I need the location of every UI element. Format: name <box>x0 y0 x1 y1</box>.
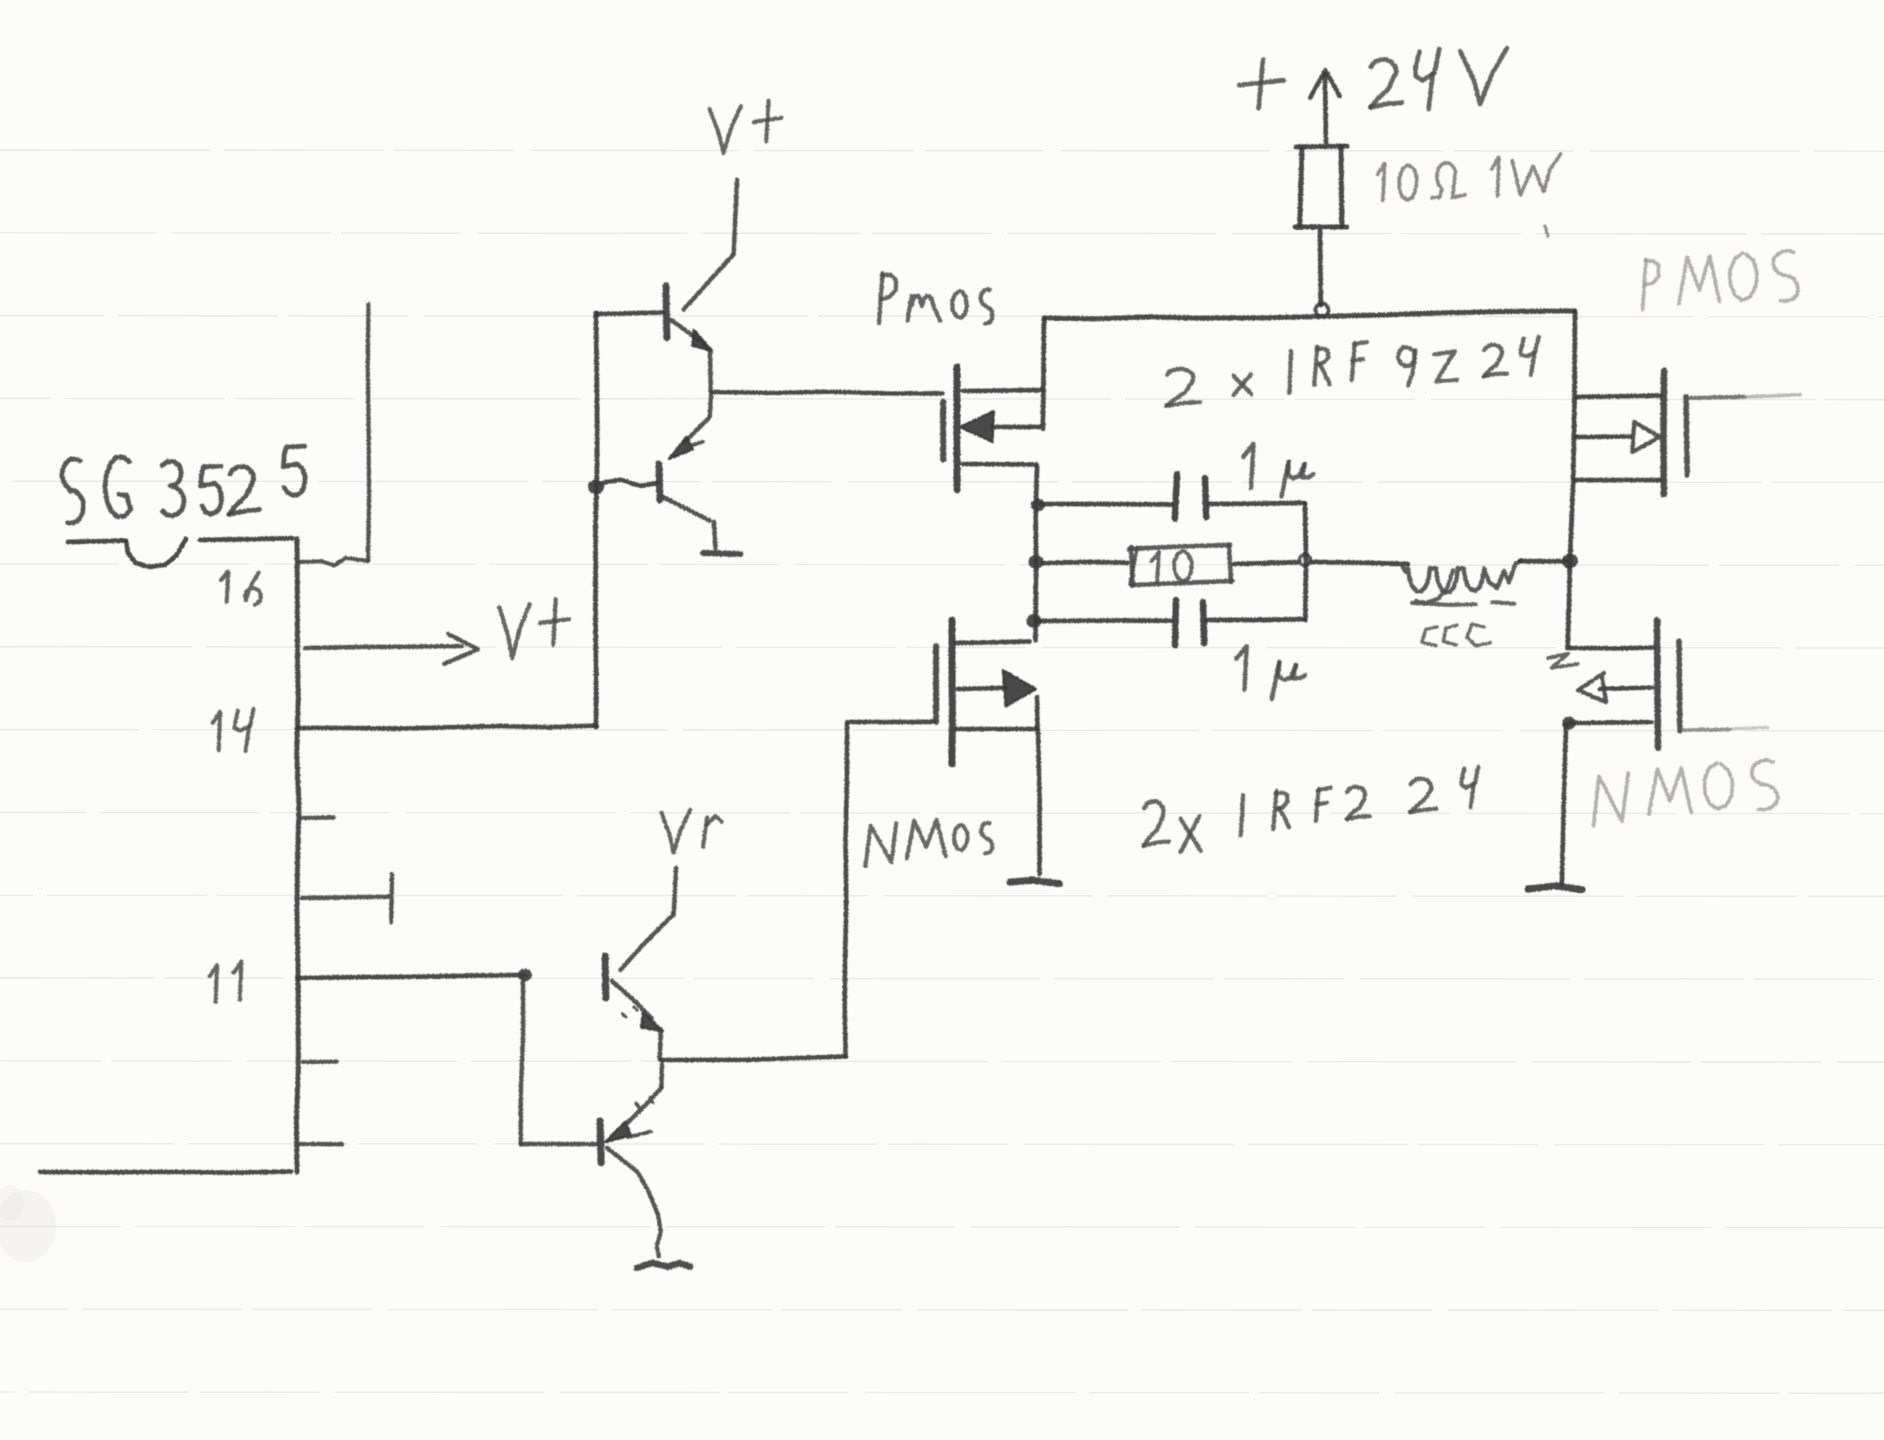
mosfet Q6 gate bar <box>1686 397 1687 475</box>
mosfet Q7 drain wire <box>956 641 1030 643</box>
transistor Q1 base bar <box>663 286 671 338</box>
Q5 body arrowhead <box>960 411 994 442</box>
wire left rail joining Q1/Q2 bases <box>596 313 598 727</box>
wire bus corner down (right PMOS drain/source rail) <box>1570 311 1575 559</box>
ground Q8 <box>1528 886 1582 890</box>
pin 14 label <box>213 712 220 750</box>
mosfet Q8 drain wire <box>1570 645 1653 650</box>
pin 16 label <box>221 571 229 601</box>
IC U1 left-side pin edge (vertical) <box>296 539 299 1172</box>
wire bottom-left (pin 10/ground lead) <box>40 1172 291 1173</box>
wire inductor to output node <box>1520 559 1567 564</box>
label V+ (mid) <box>499 604 529 658</box>
mosfet Q7 IRF Z24 gate bar <box>933 646 939 722</box>
wire pin16 to VCC stub <box>298 558 368 566</box>
label 24V <box>1371 59 1397 107</box>
transistor Q3 collector lead <box>674 868 676 912</box>
resistor R2 left lead <box>1043 562 1127 563</box>
label 1u (bottom) <box>1236 646 1246 690</box>
label 10 (R2) <box>1152 552 1159 582</box>
wire R2 node to inductor <box>1312 562 1408 564</box>
IC U1 label SG3525 <box>62 459 84 523</box>
wire Q5 drain vertical to bus <box>1043 318 1044 429</box>
ground Q7 <box>1010 880 1059 883</box>
Q2 emitter arrowhead <box>669 437 693 459</box>
wire VCC stub vertical (pin 15/16 up) <box>368 305 369 561</box>
label 10ohm 1W <box>1378 164 1385 201</box>
mosfet Q6 IRF9Z24 drain wire <box>1577 396 1661 397</box>
Q1 emitter arrowhead <box>692 330 712 351</box>
capacitor C1 right wire <box>1209 503 1304 504</box>
wire Q1 base from left rail <box>596 313 663 315</box>
label N Mos (left) <box>865 823 896 866</box>
wire Q8 source to ground <box>1562 725 1566 884</box>
inductor L1 winding <box>1402 561 1521 593</box>
wire Q1 emitter down <box>708 350 713 391</box>
transistor Q4 emitter from output <box>659 1062 664 1087</box>
label Vr (Q3 collector) <box>661 810 690 853</box>
resistor R2 right lead <box>1234 562 1298 564</box>
Q3 emitter arrowhead <box>641 1013 663 1032</box>
transistor Q2 emitter arrow (into base) <box>684 418 709 443</box>
mosfet Q7 body arrow wire <box>958 688 1008 689</box>
wire Q7 source to ground <box>1038 731 1040 874</box>
wire C1/C2 right vertical <box>1305 503 1306 620</box>
pin stub y818 <box>302 815 334 820</box>
wire R1 bottom lead <box>1318 231 1324 305</box>
resistor R2 box <box>1129 545 1230 549</box>
IC U1 SG3525 body outline (partial) <box>68 541 126 543</box>
pin stub y898 with tick <box>302 897 388 898</box>
capacitor C2 1u left wire <box>1036 618 1171 623</box>
arrow V+ output (pin 13 supply arrow) <box>305 646 462 648</box>
pin 11 label <box>210 965 217 1002</box>
label 2x IRF Z24 <box>1144 801 1164 845</box>
Q4 emitter arrowhead <box>605 1122 631 1142</box>
wire driver output to PMOS gate <box>712 392 943 394</box>
label Pmos <box>879 273 883 323</box>
label V+ (Q1 collector) <box>710 106 742 153</box>
mosfet Q6 source wire <box>1575 478 1661 483</box>
mosfet Q6 gate lead (fading right) <box>1690 397 1745 398</box>
mosfet Q7 source wire <box>956 727 1036 732</box>
wire driver output down to Q2 <box>710 395 711 416</box>
mosfet Q8 gate bar <box>1676 641 1682 731</box>
label core scribble <box>1422 627 1437 646</box>
node C1 left <box>1031 499 1045 512</box>
node C2 left <box>1027 614 1042 628</box>
mosfet Q5 body arrow wire <box>992 425 1040 430</box>
transistor Q3 emitter with arrow <box>612 981 652 1018</box>
wire pin11 to lower driver <box>297 975 525 978</box>
wire Q5 source down to cap network <box>1036 466 1038 640</box>
capacitor C2 right wire <box>1207 617 1304 623</box>
label P MOS (right) <box>1643 259 1646 309</box>
node junction bases <box>588 480 604 495</box>
mosfet Q8 channel bar <box>1657 620 1658 748</box>
wire junction down to Q4 base level <box>521 978 523 1144</box>
mosfet Q8 gate lead (fading right) <box>1683 728 1730 732</box>
wire +24V bus <box>1045 311 1575 319</box>
mosfet Q6 channel bar <box>1660 371 1667 494</box>
mosfet Q5 drain wire <box>963 388 1042 393</box>
mosfet Q8 source wire <box>1570 720 1652 725</box>
capacitor C1 plates <box>1175 474 1177 519</box>
Q7 body arrowhead <box>1003 670 1036 706</box>
wire lower driver output to Q7 gate <box>661 1057 845 1061</box>
node junction pin11 wire <box>518 969 532 982</box>
mosfet Q5 channel bar <box>954 367 961 490</box>
Q6 body arrowhead <box>1632 422 1660 452</box>
wire Q3 emitter down to output <box>660 1030 661 1059</box>
transistor Q4 base bar <box>600 1121 601 1163</box>
node bus/resistor junction (small circle) <box>1316 304 1329 317</box>
node output right <box>1562 554 1578 569</box>
transistor Q3 base bar <box>602 956 610 998</box>
mosfet Q7 channel bar <box>948 620 956 764</box>
mosfet Q5 IRF9Z24 gate bar <box>940 402 946 460</box>
transistor Q1 collector lead to V+ <box>734 180 737 252</box>
ground Q4 <box>637 1263 690 1268</box>
transistor Q2 base bar <box>656 464 664 500</box>
label N MOS (right) <box>1594 773 1629 826</box>
transistor Q2 collector to ground <box>663 497 710 521</box>
wire to Q4 base <box>521 1142 597 1146</box>
wire output node down to Q8 drain <box>1568 562 1570 648</box>
capacitor C2 plates <box>1175 600 1176 645</box>
transistor Q4 collector to ground <box>607 1148 657 1212</box>
Q8 body arrowhead <box>1578 673 1606 702</box>
inductor core dashes <box>1412 603 1476 605</box>
mosfet Q6 body arrow wire (open arrowhead) <box>1576 434 1631 439</box>
mosfet Q8 body arrow wire (open arrowhead left) <box>1600 688 1652 690</box>
Q8 arrow scribble <box>1548 654 1578 668</box>
pin stub y1144 <box>300 1142 342 1146</box>
wire Q2 base from left rail <box>596 480 657 486</box>
transistor Q1 emitter with arrow <box>671 320 705 344</box>
ground Q2 <box>703 553 740 554</box>
pin stub y1062 <box>303 1060 337 1065</box>
mosfet Q5 source wire <box>963 462 1036 467</box>
node Q8 source <box>1562 717 1576 730</box>
inductor L1 crossing tail <box>1416 570 1453 603</box>
capacitor C1 1u left wire <box>1041 502 1172 507</box>
node R2 left <box>1029 555 1044 569</box>
label 1u (top) <box>1243 444 1253 488</box>
wire pin14 to driver bases <box>297 726 597 729</box>
label + (supply) <box>1239 80 1284 85</box>
power arrow up 24V <box>1325 75 1326 143</box>
resistor R1 box <box>1300 148 1302 225</box>
wire Q7 gate lead left <box>847 719 934 724</box>
wire Q7 gate down to lower driver output <box>845 724 847 1057</box>
label 2 x IRF9Z24 <box>1167 369 1194 406</box>
